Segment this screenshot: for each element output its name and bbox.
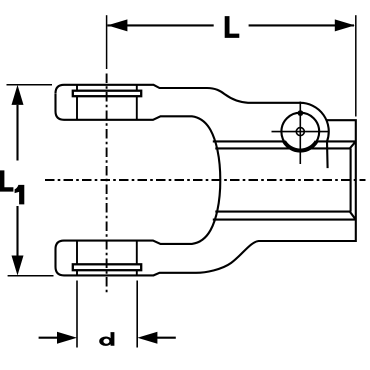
arrowhead L right — [335, 19, 355, 31]
wire bore line bottom with end chamfer — [215, 212, 355, 220]
centerline vertical ear axis — [106, 74, 108, 294]
bearing cup top: cylinder sides — [77, 85, 137, 120]
arrowhead L1 up — [12, 85, 24, 105]
yoke bottom ear and hub outline — [56, 120, 356, 275]
wire tube outer line top — [213, 140, 356, 142]
extension line L1 bottom — [8, 275, 54, 277]
pin center circle — [296, 128, 304, 136]
bearing cup bottom: cylinder sides — [77, 241, 137, 276]
pin crosshair horizontal — [272, 131, 330, 133]
label L1 — [0, 170, 13, 191]
extension line d left — [76, 281, 78, 348]
pin bold dot top — [298, 110, 304, 116]
dimension L line right segment — [249, 24, 354, 26]
arrowhead d right — [137, 332, 157, 344]
dimension L1 line lower segment — [16, 206, 18, 256]
wire tube outer line bottom — [213, 219, 356, 221]
extension line L1 top — [7, 84, 53, 86]
bearing cup bottom: flange — [73, 264, 141, 270]
wire bore end face vertical — [350, 148, 352, 211]
dimension d left tail — [39, 337, 58, 339]
wire bore line top with end chamfer — [215, 142, 355, 149]
dimension d right tail — [157, 337, 176, 339]
arrowhead L left — [107, 19, 127, 31]
arrowhead L1 down — [12, 256, 24, 276]
pin crosshair vertical — [299, 102, 301, 165]
dimension L line left segment — [107, 24, 213, 26]
label d — [99, 332, 114, 346]
extension line d right — [136, 281, 138, 348]
yoke top ear outer profile with boss arc — [56, 85, 329, 168]
dimension L1 line upper segment — [16, 105, 18, 161]
yoke top ear inner mouth line with saddle — [56, 94, 221, 181]
centerline horizontal axis — [45, 179, 366, 181]
bearing cup top: flange — [73, 91, 141, 97]
extension line L right — [355, 15, 357, 116]
extension line L left — [106, 15, 108, 69]
pin circle on boss — [281, 113, 319, 151]
pin bold arc bottom — [284, 141, 316, 150]
label L — [225, 16, 240, 38]
arrowhead d left — [57, 332, 77, 344]
